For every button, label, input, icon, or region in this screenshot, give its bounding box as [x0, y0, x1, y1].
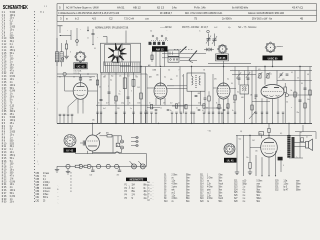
tube V3 grids — [218, 89, 229, 94]
svg-text:+: + — [80, 29, 81, 31]
value table group D — [234, 180, 262, 203]
wire filament chain — [57, 165, 147, 167]
stub labels — [92, 110, 234, 133]
svg-text:50km: 50km — [257, 192, 262, 194]
wire arrow terminals — [261, 175, 276, 177]
svg-text:77: 77 — [135, 75, 137, 77]
tube socket UY42 top view — [64, 135, 76, 147]
wire speaker aux — [289, 125, 316, 158]
dial coil box — [101, 43, 141, 72]
svg-text:··: ·· — [153, 191, 155, 193]
wire right verticals — [235, 67, 310, 124]
svg-text:0,1: 0,1 — [110, 79, 112, 81]
tube V1 grid — [74, 90, 87, 92]
wire arrow antenna — [60, 30, 72, 40]
resistor R cathode V5 — [249, 162, 251, 168]
right top parts row — [259, 74, 289, 81]
svg-text:3n: 3n — [182, 75, 184, 77]
svg-text:50m: 50m — [219, 186, 223, 188]
tube top view UABC80 — [266, 43, 275, 52]
tube V2 grids — [155, 89, 166, 94]
tube V1 anode — [77, 83, 85, 87]
label plate UF 85 — [216, 54, 229, 61]
svg-text:2n: 2n — [232, 110, 234, 112]
svg-text:5r: 5r — [132, 197, 134, 200]
heater H6 — [115, 164, 119, 168]
capacitor group right — [238, 78, 307, 101]
svg-text:1k: 1k — [129, 102, 131, 104]
svg-text:by 47: by 47 — [284, 189, 289, 191]
svg-text:50k: 50k — [233, 102, 236, 104]
svg-text:5km: 5km — [219, 180, 223, 182]
svg-text:50: 50 — [231, 83, 233, 85]
svg-text:1c: 1c — [147, 188, 149, 190]
tube V5 grids — [263, 146, 276, 149]
svg-text:14a: 14a — [172, 5, 177, 9]
tube V6 UY42 envelope — [86, 135, 100, 151]
svg-text:C2: C2 — [109, 17, 113, 21]
svg-text:a: a — [96, 75, 97, 77]
svg-text:4 Ohm: 4 Ohm — [207, 186, 213, 188]
output transformer T1 — [287, 123, 294, 158]
svg-text:R 30: R 30 — [2, 200, 7, 203]
svg-text:50k: 50k — [170, 79, 173, 81]
tube V3 envelope — [217, 83, 230, 99]
svg-text:zum: zum — [257, 183, 261, 185]
svg-text:450: 450 — [92, 120, 95, 122]
svg-text:1,5 h: 1,5 h — [152, 69, 155, 71]
tube V2 leads — [147, 68, 180, 114]
wire upper bus A — [120, 66, 312, 68]
svg-text:2n2: 2n2 — [170, 102, 172, 104]
svg-text:8u: 8u — [216, 102, 218, 104]
variable capacitor arrow 2 — [189, 51, 197, 63]
upper small text row — [96, 75, 184, 77]
svg-text:··: ·· — [153, 194, 155, 196]
svg-text:UF 85: UF 85 — [219, 56, 226, 60]
band switch contacts — [150, 35, 168, 46]
measurement table rows — [125, 185, 152, 200]
pilot lamp LA2 — [138, 161, 145, 169]
svg-text:10n: 10n — [307, 99, 310, 101]
title table row 2 text — [58, 12, 284, 15]
svg-text:2 Bau: 2 Bau — [43, 194, 49, 196]
svg-text:468: 468 — [198, 93, 201, 95]
svg-text:NORMALSUPER. SPULENSATZ 5/8.: NORMALSUPER. SPULENSATZ 5/8. — [95, 26, 129, 29]
svg-text:470: 470 — [214, 78, 217, 80]
svg-text:0,1: 0,1 — [280, 133, 282, 135]
svg-text:AM 12: AM 12 — [156, 47, 164, 51]
resistor R V4 — [284, 83, 289, 123]
svg-text:4n: 4n — [152, 107, 154, 109]
measurement table header — [126, 178, 147, 182]
svg-text:Teil: ~ 7,5 · Stimmrev.: Teil: ~ 7,5 · Stimmrev. — [238, 26, 257, 29]
wire gang horizontals — [162, 54, 206, 61]
svg-text:0,1: 0,1 — [176, 75, 178, 77]
wire dial box stubs — [103, 31, 126, 44]
scattered labels band right — [233, 69, 309, 109]
svg-text:SCHEMATHEK: SCHEMATHEK — [3, 4, 28, 11]
wire output bus — [236, 134, 312, 136]
resistor R chain1 — [75, 165, 80, 167]
svg-text:0,5: 0,5 — [168, 69, 170, 71]
svg-text:5: 5 — [131, 90, 132, 92]
svg-text:AA 51: AA 51 — [117, 5, 125, 9]
svg-text:V·1,9 2p: V·1,9 2p — [74, 73, 80, 75]
oscillator coil box 2 — [168, 57, 179, 63]
antenna — [58, 26, 63, 33]
speaker LS — [295, 139, 313, 151]
svg-text:1 Gumm: 1 Gumm — [43, 188, 51, 190]
svg-text:b: b — [70, 51, 71, 53]
tube V6 anode arrow — [96, 133, 101, 136]
oscillator coil box 1 — [168, 50, 179, 56]
svg-text:500 u: 500 u — [43, 197, 49, 199]
svg-text:4n7: 4n7 — [106, 102, 108, 104]
wire filter loop — [93, 136, 122, 153]
UABC80 top marks — [277, 46, 283, 47]
svg-text:8s: 8s — [144, 188, 146, 190]
svg-text:250: 250 — [156, 74, 159, 76]
svg-text:··: ·· — [153, 188, 155, 190]
svg-text:150: 150 — [255, 150, 258, 152]
svg-text:o: o — [151, 198, 152, 200]
svg-text:100: 100 — [90, 174, 93, 176]
svg-text:0,1: 0,1 — [306, 136, 308, 138]
svg-text:5n: 5n — [119, 93, 121, 95]
svg-text:50m: 50m — [219, 177, 223, 179]
value table group A — [147, 182, 154, 202]
wire antenna feed — [57, 38, 62, 67]
wire R ant — [66, 40, 68, 56]
coil winding hatch — [103, 63, 139, 73]
svg-text:MESSWERTE: MESSWERTE — [130, 178, 144, 181]
output terminal dots — [131, 136, 138, 146]
IF transformer T-IF1 — [187, 73, 205, 91]
resistor R ant — [65, 44, 67, 49]
svg-text:5km: 5km — [186, 177, 190, 179]
svg-text:47p: 47p — [228, 27, 231, 29]
capacitor C rect in — [80, 141, 86, 146]
value table group B — [164, 175, 191, 204]
svg-text:+: + — [97, 37, 98, 39]
svg-text:x: x — [291, 107, 292, 109]
trimmer C t2 — [212, 34, 217, 47]
svg-text:470: 470 — [117, 174, 120, 176]
wire V4 h-line — [252, 100, 270, 102]
svg-text:0,1: 0,1 — [291, 72, 293, 74]
svg-text:43.47 (C): 43.47 (C) — [292, 5, 303, 9]
svg-text:1n: 1n — [145, 110, 147, 112]
trimmer C t1 — [206, 30, 211, 46]
resistor R chain2 — [84, 165, 88, 167]
svg-text:1n: 1n — [270, 73, 272, 75]
svg-text:500p: 500p — [243, 183, 248, 185]
tube V4 anode bars — [263, 87, 279, 89]
label plate UY 42 — [64, 148, 77, 153]
svg-text:5km: 5km — [257, 189, 261, 191]
svg-text:b 2: b 2 — [75, 17, 79, 21]
tube top view UF85 — [219, 45, 227, 53]
svg-text:3n: 3n — [236, 78, 238, 80]
svg-text:Ohm: Ohm — [219, 175, 223, 177]
svg-text:75: 75 — [194, 17, 198, 21]
value table group E — [275, 180, 301, 191]
label plate UL 41 — [224, 158, 237, 163]
capacitor chain stub2 — [117, 166, 122, 176]
wire grid line to V1 — [57, 73, 98, 75]
svg-text:50: 50 — [98, 102, 100, 104]
svg-text:5km: 5km — [186, 183, 190, 185]
wire upper bus B — [230, 70, 312, 72]
svg-text:50km: 50km — [257, 198, 262, 200]
tube V4 cathodes — [264, 95, 280, 97]
ground output — [235, 172, 239, 175]
pilot lamp LA1 — [130, 161, 137, 169]
component row mid-bottom — [147, 104, 229, 111]
svg-text:470: 470 — [258, 69, 261, 71]
svg-text:0,1: 0,1 — [227, 78, 229, 80]
svg-text:468: 468 — [241, 97, 244, 99]
parts list bottom center — [36, 172, 72, 202]
svg-text:470: 470 — [216, 107, 219, 109]
svg-text:45s: 45s — [144, 194, 147, 196]
svg-text:o: o — [151, 194, 152, 196]
svg-text:4 Ohm: 4 Ohm — [207, 198, 213, 200]
tube V5 cathode — [265, 153, 274, 154]
tube V6 cathode bar — [88, 145, 97, 147]
svg-text:1k: 1k — [160, 107, 162, 109]
svg-text:50m: 50m — [186, 180, 190, 182]
svg-text:ZKV 38,5 u LW · 6a: ZKV 38,5 u LW · 6a — [252, 17, 272, 20]
svg-text:2x 900 k: 2x 900 k — [222, 17, 233, 21]
svg-text:Röh. UY42 UC92 UF85 UABC80 UL4: Röh. UY42 UC92 UF85 UABC80 UL41 — [185, 12, 223, 15]
wire HT line — [96, 104, 205, 106]
svg-text:+: + — [67, 30, 68, 32]
svg-text:25u: 25u — [246, 157, 249, 159]
svg-text:4 Novu: 4 Novu — [43, 191, 50, 193]
svg-text:Noch: Noch — [219, 198, 224, 200]
svg-text:25: 25 — [149, 102, 151, 104]
svg-text:5 000: 5 000 — [43, 185, 49, 187]
tube V2 cathode — [157, 96, 165, 97]
svg-text:—— AM-Teil: —— AM-Teil — [160, 26, 172, 29]
V2 labels — [149, 74, 173, 81]
svg-text:AB 12: AB 12 — [133, 5, 141, 9]
svg-text:1 prim: 1 prim — [172, 185, 178, 188]
wire mid verticals — [98, 67, 146, 124]
svg-text:50km: 50km — [296, 189, 301, 191]
svg-text:1,5zu: 1,5zu — [284, 183, 289, 185]
tube V4 leads — [262, 67, 278, 124]
svg-text:u.a: u.a — [145, 18, 149, 21]
IF transformer T-IF2 — [240, 85, 249, 94]
tube V1 UC92 envelope — [73, 83, 88, 100]
wire aux line — [57, 73, 95, 77]
oscillator coil with core — [204, 48, 214, 51]
oscillator parts — [148, 52, 165, 72]
capacitor block C out — [278, 157, 283, 161]
wire IFT1 leads — [180, 67, 201, 114]
svg-text:Noch: Noch — [219, 183, 224, 185]
svg-text:50m: 50m — [186, 192, 190, 194]
ground ant — [64, 55, 69, 57]
svg-text:o: o — [151, 185, 152, 187]
svg-text:30p: 30p — [111, 75, 113, 77]
tube V2 envelope — [154, 83, 167, 99]
scattered labels band top — [67, 27, 231, 54]
ground V5 cathode — [248, 168, 252, 174]
svg-text:50m: 50m — [219, 192, 223, 194]
svg-text:6: 6 — [283, 165, 284, 167]
wire V5 left lead — [250, 135, 261, 162]
label plate UC 92 — [74, 63, 88, 69]
svg-text:5km: 5km — [296, 186, 300, 188]
tube V1 leads — [65, 76, 98, 114]
trimmer arrows right band — [237, 72, 283, 78]
terminal mark — [87, 27, 88, 32]
svg-text:prim: prim — [207, 188, 211, 191]
svg-text:5 Ohm: 5 Ohm — [257, 180, 263, 182]
potentiometer arrow — [249, 112, 256, 120]
svg-text:5n: 5n — [170, 110, 172, 112]
svg-text:5,6: 5,6 — [104, 75, 106, 77]
ground chain H1 — [66, 169, 70, 175]
wire grid line ext — [101, 73, 147, 75]
svg-text:5km: 5km — [257, 201, 261, 203]
svg-text:2 Ohm: 2 Ohm — [172, 175, 178, 177]
svg-text:2 Ohm: 2 Ohm — [207, 177, 213, 179]
svg-text:m3: m3 — [203, 69, 205, 71]
title table row 3 text — [60, 17, 304, 21]
svg-text:ZF 468/10,7: ZF 468/10,7 — [160, 12, 173, 15]
tube V6 grid — [88, 140, 98, 142]
wire rectifier leads — [92, 123, 94, 153]
svg-text:220: 220 — [117, 108, 120, 110]
svg-text:41s: 41s — [144, 198, 147, 200]
svg-text:220p: 220p — [121, 102, 124, 104]
svg-text:0,5: 0,5 — [178, 102, 180, 104]
svg-text:88s: 88s — [144, 185, 147, 187]
wire stub 77 — [76, 28, 79, 46]
variable capacitor arrow 1 — [180, 47, 187, 53]
value table group C — [200, 175, 224, 204]
svg-text:20 k: 20 k — [10, 200, 15, 203]
svg-text:50km: 50km — [257, 186, 262, 188]
svg-text:5km: 5km — [219, 189, 223, 191]
wire UABC label stub — [272, 60, 274, 66]
tube top view UC92 — [76, 52, 85, 61]
svg-text:4x12: 4x12 — [214, 27, 217, 29]
contact circles — [61, 58, 66, 76]
mid labels — [103, 76, 138, 109]
svg-text:0,1: 0,1 — [237, 91, 239, 93]
capacitor chain stub1 — [90, 166, 95, 176]
ground chain left — [55, 166, 59, 172]
svg-text:2 Fass: 2 Fass — [43, 173, 50, 175]
tube V5 anode — [264, 142, 274, 144]
label plate AM — [152, 46, 168, 51]
svg-text:50m: 50m — [186, 198, 190, 200]
svg-text:50u: 50u — [239, 138, 242, 140]
antenna coil L2 — [60, 52, 63, 62]
heater H2 — [79, 164, 83, 168]
svg-text:12k: 12k — [119, 75, 121, 77]
resistor group right — [234, 90, 311, 110]
svg-text:zum: zum — [296, 180, 300, 182]
tube V2 anode — [157, 83, 165, 86]
svg-text:AM/: AM/ — [149, 75, 152, 78]
svg-text:45: 45 — [300, 17, 304, 21]
resistor R screen — [268, 123, 270, 138]
tube V4 UABC80 envelope — [261, 85, 284, 99]
svg-text:5,8: 5,8 — [240, 131, 242, 133]
IFT1 lower parts — [195, 91, 211, 113]
capacitor C 470 — [259, 132, 264, 139]
svg-text:o: o — [151, 188, 152, 190]
svg-text:6,8: 6,8 — [307, 74, 309, 76]
title table row 1 text — [59, 5, 303, 9]
publisher logo SCHEMATHEK — [3, 4, 48, 13]
svg-text:UY 42: UY 42 — [66, 148, 73, 152]
capacitor stub row — [59, 112, 285, 123]
tube V3 cathode — [220, 96, 228, 97]
svg-text:m 4: m 4 — [127, 75, 129, 77]
svg-text:62 13: 62 13 — [157, 5, 164, 9]
svg-text:1n: 1n — [87, 37, 89, 39]
junction dots — [92, 66, 306, 136]
svg-text:1k2: 1k2 — [252, 140, 255, 142]
tube V5 UL41 envelope — [261, 138, 278, 157]
label UC92 data text — [74, 69, 93, 81]
svg-text:50km: 50km — [296, 183, 301, 185]
svg-text:0,1: 0,1 — [202, 110, 204, 112]
svg-text:UC 92: UC 92 — [77, 64, 85, 68]
svg-text:50m: 50m — [186, 186, 190, 188]
svg-text:470: 470 — [163, 102, 165, 104]
tube V4 grid — [263, 91, 282, 93]
svg-text:1 000 p: 1 000 p — [43, 182, 50, 184]
svg-text:6x AM 900 kHz: 6x AM 900 kHz — [232, 5, 249, 9]
svg-text:2k: 2k — [99, 86, 101, 88]
svg-text:··: ·· — [153, 197, 155, 199]
svg-text:50: 50 — [301, 83, 303, 85]
capacitor group mid — [100, 92, 130, 101]
svg-text:C43: C43 — [137, 87, 140, 89]
svg-text:1: 1 — [297, 93, 298, 95]
svg-text:5 000: 5 000 — [137, 102, 141, 104]
svg-text:50: 50 — [94, 48, 96, 50]
svg-text:5km: 5km — [257, 195, 261, 197]
svg-text:5k: 5k — [291, 90, 293, 92]
svg-text:5km: 5km — [186, 195, 190, 197]
wire chassis bus — [57, 122, 312, 124]
label plate UABC 80 — [263, 56, 283, 61]
heater H3 — [87, 164, 91, 168]
svg-text:··: ·· — [153, 200, 155, 202]
svg-text:1n: 1n — [130, 108, 132, 110]
scattered labels output — [240, 131, 302, 167]
wire right connectors — [232, 75, 312, 96]
tube socket UL41 top view — [224, 144, 235, 155]
capacitor C electrolytic — [116, 143, 120, 147]
antenna coil L1 — [55, 52, 58, 62]
resistor R filter — [100, 131, 122, 137]
svg-text:100k: 100k — [198, 102, 201, 104]
heater H5 — [106, 164, 110, 168]
svg-text:4 Ohm: 4 Ohm — [172, 183, 178, 185]
svg-text:2n: 2n — [196, 107, 198, 109]
